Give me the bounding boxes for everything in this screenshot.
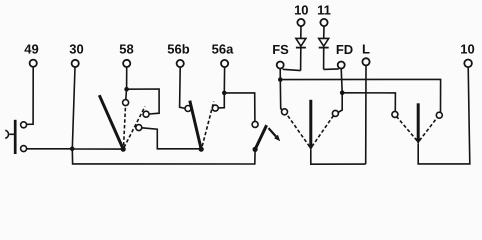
contact C2 of switch1 [143, 111, 149, 117]
switch3 dashed link left [287, 114, 310, 147]
wire 56b lead down to contact [180, 67, 185, 108]
switch1 dashed link through C3 toward C2 [124, 107, 145, 148]
node switch1 pivot [121, 147, 126, 152]
svg-text:56a: 56a [212, 42, 234, 57]
switch2 dashed link to L2b [202, 102, 214, 147]
terminal 56b circle [177, 60, 184, 67]
wire 49 lead down [27, 67, 34, 124]
switch3 lever [309, 100, 312, 145]
svg-text:56b: 56b [167, 42, 189, 57]
push button upper contact [21, 122, 27, 128]
node 58 junction [124, 87, 129, 92]
wire 58 lead down [126, 67, 128, 89]
switch4 left contact [392, 111, 398, 117]
switch3 right contact stub [338, 93, 342, 113]
node FS junction [278, 77, 283, 82]
switch3 dashed link right [312, 116, 333, 147]
svg-text:10: 10 [294, 2, 308, 17]
switch4 dashed link left [397, 117, 417, 141]
svg-text:30: 30 [69, 42, 83, 57]
switch4 lever [417, 103, 420, 139]
terminal L circle [362, 58, 369, 65]
node junction 30 [70, 147, 75, 152]
wire C3 to switch2 pivot [142, 128, 201, 149]
wire 56a lead down [223, 67, 225, 93]
node switch2b pivot [253, 147, 258, 152]
contact L2b of switch2 [212, 105, 218, 111]
wire switch3 pivot to bottom [311, 150, 366, 165]
wire 30 lead down [72, 67, 75, 149]
wire 56a to switch2b contact [224, 93, 255, 122]
terminal 11 top circle [320, 19, 327, 26]
contact of switch2b [252, 121, 258, 127]
switch4 right contact [436, 112, 442, 118]
push button knob arc [5, 130, 8, 138]
svg-text:10: 10 [460, 42, 474, 57]
diode V2 cathode bar [319, 47, 329, 49]
diode V2 lead down [323, 48, 325, 70]
diode V1 lead down [300, 48, 302, 71]
terminal 56a circle [221, 60, 228, 67]
wire 58 to contact C1 [125, 89, 128, 100]
switch4 dashed link right [419, 118, 437, 141]
terminal 10 top circle [297, 19, 304, 26]
switch1 lever [99, 95, 123, 149]
terminal 10 right circle [464, 60, 472, 68]
wire FS to diode V1 [283, 69, 301, 70]
switch3 lever arrowhead [308, 145, 314, 151]
switch2b lever [255, 125, 267, 149]
terminal 58 circle [123, 60, 130, 67]
contact C1 of switch1 [123, 100, 129, 106]
wire lower contact to junction [27, 148, 72, 150]
contact C3 of switch1 [136, 125, 142, 131]
terminal 30 circle [72, 60, 79, 67]
terminal 49 circle [30, 60, 37, 67]
svg-text:49: 49 [24, 42, 38, 57]
diode V1 cathode bar [296, 47, 306, 49]
switch3 left contact [282, 109, 288, 115]
push button knob stub [9, 133, 14, 135]
svg-text:58: 58 [119, 42, 133, 57]
terminal FD circle [338, 62, 345, 69]
switch3 left contact stub [280, 80, 282, 110]
wire bus2 FD to switch4 left contact [342, 93, 395, 112]
wire FS down to bus [279, 69, 281, 80]
push button lower contact [21, 146, 27, 152]
push button actuator bar [14, 120, 17, 154]
contact L2a of switch2 [185, 106, 191, 112]
node 56a junction [222, 91, 227, 96]
node switch2 pivot [199, 147, 204, 152]
switch2b motion arrow [269, 128, 277, 136]
svg-text:FS: FS [272, 42, 289, 57]
diode V2 lead from 11 [323, 26, 325, 38]
wire L lead down [365, 65, 367, 164]
svg-text:11: 11 [317, 2, 331, 17]
svg-text:L: L [362, 42, 370, 57]
switch1 dashed link to C1 [124, 106, 126, 146]
terminal FS circle [277, 62, 284, 69]
wire FD down through bus1 [341, 69, 342, 93]
wire 56a to L2b [218, 93, 224, 108]
diode V2 triangle [319, 38, 329, 46]
wire 58 detour to contact C2 [127, 89, 160, 114]
svg-text:FD: FD [336, 42, 353, 57]
switch3 right contact [332, 110, 338, 116]
wire junction to switch1 pivot [72, 148, 123, 150]
switch4 lever arrowhead [415, 138, 421, 144]
switch2 lever [190, 101, 201, 150]
diode V1 lead from 10 [300, 26, 302, 38]
wire bus1 FS to switch4 right contact [280, 79, 440, 112]
node FD junction [340, 90, 345, 95]
wire switch4 pivot to bottom and to 10 [418, 67, 470, 164]
wire riser to bottom bus [72, 149, 255, 164]
diode V1 triangle [296, 38, 306, 46]
wire FD to diode V2 [324, 68, 339, 71]
